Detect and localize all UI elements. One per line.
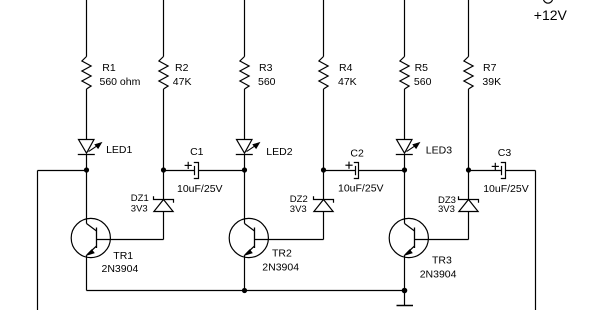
wire xyxy=(323,89,325,170)
LED LED2 xyxy=(236,140,293,159)
wire xyxy=(38,170,87,172)
svg-text:C2: C2 xyxy=(350,147,364,159)
svg-text:R3: R3 xyxy=(259,62,273,74)
wire xyxy=(86,0,88,57)
transistor TR3 xyxy=(389,170,468,291)
wire xyxy=(163,0,165,57)
wire xyxy=(323,212,325,240)
terminal +12V xyxy=(534,0,568,23)
wire xyxy=(404,155,406,171)
svg-text:TR2: TR2 xyxy=(272,247,292,259)
svg-text:TR1: TR1 xyxy=(113,250,133,262)
svg-text:DZ1: DZ1 xyxy=(131,193,149,204)
wire xyxy=(468,170,470,200)
LED LED3 xyxy=(396,140,452,157)
wire xyxy=(244,0,246,57)
wire xyxy=(37,171,39,310)
svg-text:TR3: TR3 xyxy=(432,255,452,267)
svg-text:LED2: LED2 xyxy=(266,146,292,158)
zener diode DZ1 xyxy=(131,193,174,215)
svg-text:LED1: LED1 xyxy=(106,144,132,156)
svg-text:47K: 47K xyxy=(338,76,357,88)
svg-text:39K: 39K xyxy=(482,76,501,88)
node junction xyxy=(402,288,408,294)
svg-text:C3: C3 xyxy=(498,147,512,159)
wire xyxy=(506,170,536,172)
capacitor C3 xyxy=(469,147,529,195)
svg-text:3V3: 3V3 xyxy=(131,204,148,215)
node junction xyxy=(161,167,166,172)
zener diode DZ2 xyxy=(290,194,334,215)
transistor TR1 xyxy=(71,170,163,291)
svg-text:3V3: 3V3 xyxy=(438,204,455,215)
svg-text:+12V: +12V xyxy=(534,7,568,23)
node junction xyxy=(466,167,471,172)
svg-text:560: 560 xyxy=(414,76,432,88)
resistor R3 xyxy=(240,57,276,90)
wire xyxy=(404,0,406,57)
wire xyxy=(86,89,88,140)
wire xyxy=(244,89,246,140)
svg-text:R5: R5 xyxy=(415,62,429,74)
capacitor C2 xyxy=(324,147,384,194)
node junction xyxy=(242,288,247,293)
wire xyxy=(163,170,165,200)
wire xyxy=(244,155,246,171)
wire xyxy=(468,0,470,57)
svg-text:10uF/25V: 10uF/25V xyxy=(483,183,529,195)
wire xyxy=(359,170,405,172)
svg-text:2N3904: 2N3904 xyxy=(262,262,299,274)
wire xyxy=(468,212,470,240)
wire xyxy=(404,89,406,140)
wire xyxy=(163,89,165,170)
svg-text:C1: C1 xyxy=(190,146,204,158)
svg-text:R1: R1 xyxy=(102,62,116,74)
svg-text:3V3: 3V3 xyxy=(290,204,307,215)
resistor R1 xyxy=(82,57,141,90)
svg-text:2N3904: 2N3904 xyxy=(102,263,139,275)
resistor R7 xyxy=(464,57,501,90)
svg-text:10uF/25V: 10uF/25V xyxy=(338,183,384,195)
svg-text:10uF/25V: 10uF/25V xyxy=(177,183,223,195)
node junction xyxy=(321,167,326,172)
wire xyxy=(535,171,537,310)
zener diode DZ3 xyxy=(438,195,479,215)
svg-text:R2: R2 xyxy=(175,62,189,74)
node junction xyxy=(84,167,89,172)
ground xyxy=(397,291,414,306)
resistor R5 xyxy=(400,57,432,90)
svg-text:R7: R7 xyxy=(483,62,497,74)
capacitor C1 xyxy=(164,146,223,195)
wire xyxy=(323,0,325,57)
svg-text:R4: R4 xyxy=(339,62,353,74)
resistor R2 xyxy=(159,57,192,90)
wire xyxy=(323,170,325,200)
svg-text:2N3904: 2N3904 xyxy=(420,268,457,280)
resistor R4 xyxy=(319,57,357,90)
svg-text:LED3: LED3 xyxy=(426,145,452,157)
wire xyxy=(468,89,470,170)
wire xyxy=(199,170,245,172)
LED LED1 xyxy=(78,140,133,157)
wire xyxy=(87,290,405,292)
transistor TR2 xyxy=(229,170,323,291)
svg-text:560 ohm: 560 ohm xyxy=(100,76,141,88)
wire xyxy=(86,155,88,171)
node junction xyxy=(402,167,407,172)
wire xyxy=(163,212,165,240)
svg-text:47K: 47K xyxy=(173,76,192,88)
svg-text:560: 560 xyxy=(258,76,276,88)
node junction xyxy=(242,167,247,172)
